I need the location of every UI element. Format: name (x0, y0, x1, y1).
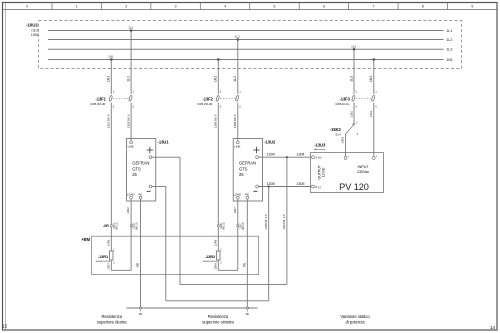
svg-text:LOAD: LOAD (234, 193, 242, 197)
terminal - -13U1 (149, 185, 152, 188)
wire 1305 drop (268, 187, 270, 301)
svg-text:PV 120: PV 120 (339, 182, 369, 192)
terminal -XR 1306 (217, 225, 219, 227)
wire 1305 riser from -13U1 (165, 187, 167, 301)
svg-text:14: 14 (490, 325, 496, 330)
svg-text:superiore destra: superiore destra (97, 319, 127, 324)
svg-text:10KB 2A GG: 10KB 2A GG (335, 102, 349, 106)
power supply box -13U3 PV120 (310, 153, 383, 193)
wire 1310 (-13F3 to -15K2) (353, 103, 355, 124)
svg-text:Variatore statico: Variatore statico (340, 314, 370, 319)
svg-text:1303 BK 6: 1303 BK 6 (126, 114, 130, 128)
wire 1N1 tap to -13F1 pole1 (110, 60, 112, 95)
svg-text:PE: PE (139, 313, 143, 316)
breaker -13F3 (10KB 2A GG) (335, 90, 377, 109)
wire PE from -13U1 (140, 199, 142, 308)
terminal PV120 input L (344, 157, 347, 160)
terminal PV120 3(+) (312, 156, 315, 159)
svg-text:BK 1,5: BK 1,5 (241, 222, 245, 230)
node tap 1N1 junction (branch3) (373, 58, 376, 61)
svg-text:1L1: 1L1 (128, 26, 133, 30)
wire 1305 (-13U2 - to PV120) (259, 186, 311, 188)
svg-text:4000W(2x2000): 4000W(2x2000) (203, 261, 218, 263)
enclosure +BM box (92, 236, 259, 274)
wire -13U1 + to bend (152, 156, 180, 158)
terminal PE -13U2 (246, 196, 249, 199)
svg-text:4: 4 (224, 5, 226, 9)
wire 1304 bottom run (180, 284, 287, 286)
top ruler line (3, 9, 498, 11)
svg-text:-XR: -XR (103, 224, 109, 228)
svg-text:13R7: 13R7 (106, 263, 110, 270)
ground PE marker 1 (139, 307, 141, 309)
svg-text:1309: 1309 (341, 137, 345, 144)
breaker -13F2 (10KB 25A UR) (197, 90, 241, 109)
bus line 1L1 (48, 30, 444, 32)
svg-text:1L1: 1L1 (447, 29, 453, 33)
svg-text:25: 25 (239, 172, 244, 177)
bus line 1L3 (48, 48, 444, 50)
svg-text:superiore sinistra: superiore sinistra (202, 319, 234, 324)
wire 1302 ( -13U1 LOAD to -XR ) (130, 199, 132, 225)
op-amp box -13U2 GEFRAN GTS outline (233, 139, 262, 202)
svg-text:1304: 1304 (267, 153, 275, 157)
wire R2 bottom L (217, 260, 219, 270)
svg-text:1311: 1311 (369, 110, 373, 117)
node tap 1L2 junction (237, 38, 240, 41)
svg-text:1301 BK 6: 1301 BK 6 (107, 114, 111, 128)
svg-text:GTS: GTS (239, 166, 248, 171)
svg-text:PE: PE (246, 313, 250, 316)
wire 13R6 (-XR to R1) (110, 227, 112, 251)
svg-text:-13U1: -13U1 (158, 140, 170, 145)
svg-text:Resistenza: Resistenza (101, 314, 122, 319)
svg-text:PE: PE (138, 193, 142, 197)
top ruler column numbers (26, 5, 473, 9)
terminal + -13U1 (149, 156, 152, 159)
terminal - -13U2 (256, 185, 259, 188)
svg-text:-13U3: -13U3 (314, 142, 326, 147)
node tap 1L3 junction (353, 48, 356, 51)
svg-text:1L3: 1L3 (447, 48, 453, 52)
svg-text:10KB 25A UR: 10KB 25A UR (90, 102, 105, 106)
svg-text:di potenza: di potenza (345, 319, 365, 324)
top ruler column ticks (52, 3, 448, 10)
svg-text:GTS: GTS (132, 166, 141, 171)
terminal LINE -13U1 (130, 141, 133, 144)
svg-text:1L3: 1L3 (351, 44, 356, 48)
svg-text:1: 1 (76, 5, 78, 9)
resistor -13R1 (110, 251, 113, 260)
contact -15K2 (NO) (353, 123, 355, 125)
svg-text:1N1: 1N1 (214, 76, 218, 82)
svg-text:PE: PE (136, 263, 140, 267)
svg-text:1N1: 1N1 (447, 58, 453, 62)
svg-text:2: 2 (125, 5, 127, 9)
bus line 1N1 (48, 59, 444, 61)
svg-text:-15K2: -15K2 (330, 127, 342, 132)
svg-text:+BM: +BM (81, 237, 90, 242)
svg-text:13R6: 13R6 (106, 239, 110, 246)
svg-text:-13F3: -13F3 (340, 96, 351, 101)
svg-text:125A: 125A (31, 33, 39, 37)
node 1304 junction (286, 156, 288, 158)
wire 1304 (-13U2 + to PV120) (259, 156, 311, 158)
terminal LOAD -13U2 (236, 196, 239, 199)
wire -13U1 - to bend (152, 186, 166, 188)
svg-text:Alimentatore: Alimentatore (314, 148, 326, 151)
svg-text:-10U1: -10U1 (26, 23, 39, 28)
svg-text:1L3: 1L3 (349, 76, 353, 82)
terminal -XR 1307 (237, 225, 239, 227)
svg-text:1306 BK 6: 1306 BK 6 (214, 114, 218, 128)
svg-text:1302: 1302 (126, 207, 130, 214)
breaker -13F1 (10KB 25A UR) (90, 90, 134, 109)
svg-text:6 (-): 6 (-) (315, 185, 320, 189)
ground PE marker 2 (246, 307, 248, 309)
svg-text:1L2: 1L2 (233, 76, 237, 82)
svg-text:10KB 25A UR: 10KB 25A UR (197, 102, 212, 106)
terminal PE -13U1 (139, 196, 142, 199)
wire 1306 BK 6 (breaker to -XR) (217, 103, 219, 225)
svg-text:1308 BK 6: 1308 BK 6 (233, 114, 237, 128)
svg-text:4000W(2x2000): 4000W(2x2000) (96, 261, 111, 263)
node tap 1N1 junction (branch1) (110, 58, 113, 61)
wire 1L2 tap to -13F2 pole2 (237, 40, 239, 95)
svg-text:/15.4: /15.4 (335, 132, 341, 136)
svg-text:BK 1,5: BK 1,5 (222, 222, 226, 230)
svg-text:12: 12 (2, 324, 7, 329)
wire 1311 (-13F3 to PV120) (373, 103, 375, 157)
svg-text:-13U2: -13U2 (264, 140, 276, 145)
svg-text:LINE: LINE (128, 144, 134, 148)
wire 1L1 tap to -13F1 pole2 (130, 31, 132, 95)
svg-text:13R8: 13R8 (213, 239, 217, 246)
svg-text:-13F1: -13F1 (96, 96, 107, 101)
wire 1304 riser from -13U1 (179, 157, 181, 284)
svg-text:1304: 1304 (296, 153, 304, 157)
terminal LOAD -13U1 (130, 196, 133, 199)
minus sign -13U2 (253, 190, 257, 192)
node tap 1N1 junction (branch2) (217, 58, 220, 61)
svg-text:12Vdc: 12Vdc (321, 167, 325, 177)
wire 1L3 tap to -13F3 pole1 (353, 49, 355, 94)
plus sign -13U2 (253, 149, 259, 151)
wire 1304 drop (286, 157, 288, 284)
svg-text:9: 9 (471, 5, 473, 9)
terminal -XR 1301 (110, 225, 112, 227)
svg-text:PE: PE (243, 263, 247, 267)
svg-text:3 (+): 3 (+) (315, 156, 321, 160)
svg-text:1304 BL 1,5: 1304 BL 1,5 (282, 214, 286, 230)
terminal PV120 6(-) (312, 185, 315, 188)
svg-text:-13R2: -13R2 (205, 254, 216, 259)
terminal -XR 1302 (130, 225, 132, 227)
wire R1 bottom L (110, 260, 112, 270)
svg-text:230Vac: 230Vac (357, 170, 369, 174)
svg-text:1L2: 1L2 (235, 35, 240, 39)
bus line 1L2 (48, 39, 444, 41)
svg-text:1307: 1307 (233, 207, 237, 214)
wire 1N1 tap to -13F3 pole2 (373, 60, 375, 95)
bus enclosure -10U1 dashed box (39, 21, 462, 69)
svg-text:BK 1,5: BK 1,5 (115, 222, 119, 230)
wire 1308 BK 6 (breaker to -13U2 LINE) (237, 103, 239, 141)
svg-text:-13F2: -13F2 (203, 96, 214, 101)
svg-text:-13R1: -13R1 (98, 254, 109, 259)
svg-text:6: 6 (323, 5, 325, 9)
frame inner left line (5, 3, 7, 331)
wire 1303 BK 6 (breaker to -13U1 LINE) (130, 103, 132, 141)
svg-text:GEFRAN: GEFRAN (239, 161, 256, 166)
svg-text:1305: 1305 (267, 182, 275, 186)
svg-text:25: 25 (132, 172, 137, 177)
svg-text:1N1: 1N1 (108, 55, 114, 59)
op-amp box -13U1 GEFRAN GTS outline (127, 139, 156, 202)
node 1305 junction (268, 185, 270, 187)
svg-text:LINE: LINE (234, 144, 240, 148)
svg-text:1310: 1310 (349, 110, 353, 117)
svg-text:PE: PE (245, 193, 249, 197)
terminal + -13U2 (256, 156, 259, 159)
svg-text:BK 1,5: BK 1,5 (134, 222, 138, 230)
plus sign -13U1 (147, 149, 153, 151)
terminal PV120 input N (372, 157, 375, 160)
wire 1301 BK 6 (breaker to -XR) (110, 103, 112, 225)
svg-text:INPUT: INPUT (358, 165, 370, 169)
svg-text:1305 BL 1,5: 1305 BL 1,5 (264, 214, 268, 230)
svg-text:LOAD: LOAD (127, 193, 135, 197)
svg-text:8: 8 (422, 5, 424, 9)
svg-text:13R9: 13R9 (213, 263, 217, 270)
svg-text:1L2: 1L2 (447, 38, 453, 42)
wire 1305 bottom run (166, 300, 269, 302)
svg-text:1N1: 1N1 (107, 76, 111, 82)
svg-text:7: 7 (372, 5, 374, 9)
svg-text:3: 3 (175, 5, 177, 9)
svg-text:1N1: 1N1 (369, 76, 373, 82)
svg-text:5: 5 (274, 5, 276, 9)
resistor -13R2 (217, 251, 220, 260)
wire PE bus (126, 307, 257, 309)
svg-text:1305: 1305 (296, 182, 304, 186)
wire 1309 (-15K2 to PV120) (345, 134, 347, 157)
node tap 1L1 junction (130, 29, 133, 32)
wire 1N1 tap to -13F2 pole1 (217, 60, 219, 95)
terminal LINE -13U2 (236, 141, 239, 144)
wire 1307 (-13U2 LOAD to -XR) (237, 199, 239, 225)
svg-text:1L1: 1L1 (126, 76, 130, 82)
wire PE from -13U2 (246, 199, 248, 308)
wire 13R8 (-XR to R2) (217, 227, 219, 251)
minus sign -13U1 (147, 190, 151, 192)
svg-text:Resistenza: Resistenza (208, 314, 229, 319)
svg-text:0: 0 (26, 5, 28, 9)
svg-text:GEFRAN: GEFRAN (132, 161, 149, 166)
